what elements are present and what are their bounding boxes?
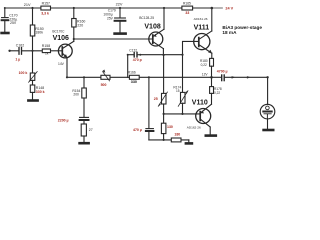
- svg-text:330 k: 330 k: [36, 90, 45, 94]
- svg-text:25: 25: [154, 97, 158, 101]
- svg-text:27: 27: [89, 128, 93, 132]
- resistor R166: [129, 75, 139, 79]
- ground (27 ohm): [80, 142, 89, 145]
- node rail-R160: [73, 7, 75, 9]
- arrowhead V106 emitter: [64, 54, 68, 58]
- svg-text:12V: 12V: [202, 73, 209, 77]
- svg-text:BiA3 power-stage: BiA3 power-stage: [222, 25, 262, 30]
- arrowhead trimmer 25: [158, 103, 161, 106]
- svg-text:2200 µ: 2200 µ: [58, 118, 69, 122]
- node input terminal: [8, 50, 10, 52]
- capacitor 470u: [146, 129, 154, 140]
- node output: [210, 76, 213, 79]
- wire R154 chain: [83, 77, 85, 88]
- wire V111 collector to rail: [211, 8, 213, 31]
- wire V110 collector to chassis: [209, 127, 211, 135]
- node C162-R150: [31, 50, 33, 52]
- wire V111 base: [183, 41, 199, 54]
- svg-text:R158: R158: [42, 44, 50, 48]
- svg-text:3,3 k: 3,3 k: [41, 12, 49, 16]
- svg-text:0,22: 0,22: [214, 91, 220, 95]
- ground (C179): [115, 32, 126, 35]
- svg-text:4700 µ: 4700 µ: [217, 69, 228, 73]
- resistor R180: [210, 58, 214, 66]
- wire V111 emitter: [211, 53, 213, 58]
- resistor R165: [182, 6, 193, 10]
- node C172 left: [127, 54, 129, 56]
- ground (R148): [28, 99, 37, 102]
- trimmer 100k: [29, 51, 38, 85]
- capacitor C179: [115, 8, 126, 32]
- svg-text:25V: 25V: [107, 16, 114, 20]
- node R154 tap: [83, 76, 85, 78]
- svg-text:14V: 14V: [58, 62, 65, 66]
- wire main feedback/output line: [67, 76, 212, 78]
- svg-text:V111: V111: [194, 24, 210, 31]
- node rail-C170 corner: [4, 7, 6, 9]
- resistor 27: [81, 124, 86, 136]
- connector arrow 1: [232, 76, 236, 79]
- arrowhead trimmer 100k: [28, 79, 31, 83]
- wire V106 collector: [73, 27, 75, 41]
- wire bottom bus: [149, 139, 189, 141]
- capacitor C162: [19, 48, 42, 55]
- svg-text:V106: V106: [53, 35, 69, 42]
- svg-text:100 k: 100 k: [19, 71, 28, 75]
- svg-text:500: 500: [101, 83, 107, 87]
- node V111 base drop: [181, 54, 183, 56]
- arrowhead pot 500: [102, 70, 105, 73]
- transistor V110: [196, 104, 212, 127]
- svg-text:22V: 22V: [116, 3, 123, 7]
- node 470u tap: [148, 76, 150, 78]
- svg-text:180k: 180k: [35, 31, 43, 35]
- trimmer 25: [158, 92, 167, 114]
- trimmer R174: [178, 91, 188, 114]
- svg-text:V110: V110: [192, 99, 208, 106]
- svg-text:AD161·26: AD161·26: [194, 17, 208, 21]
- svg-text:470 µ: 470 µ: [133, 128, 142, 132]
- capacitor C170: [2, 8, 9, 32]
- node bottom bus R130: [163, 139, 165, 141]
- svg-text:1 µ: 1 µ: [15, 58, 20, 62]
- wire trimmer B column: [182, 55, 184, 93]
- svg-text:1k: 1k: [45, 51, 49, 55]
- arrowhead V111 emitter (NPN): [208, 50, 212, 54]
- svg-text:AD162·26: AD162·26: [187, 125, 201, 129]
- node rail-V111: [211, 7, 214, 10]
- resistor R154: [82, 88, 87, 98]
- ground (bottom bus): [186, 140, 192, 144]
- arrowhead trimmer R174: [185, 90, 188, 93]
- wire 470u column: [148, 77, 150, 128]
- wire rail stub to 24V label: [212, 7, 223, 9]
- svg-text:BC170C: BC170C: [52, 30, 65, 34]
- ground chassis (V110): [206, 134, 216, 137]
- node V106 collector: [73, 38, 75, 40]
- svg-text:130: 130: [167, 125, 173, 129]
- node rail-V108: [163, 7, 165, 9]
- wire output to speaker: [212, 76, 222, 78]
- resistor 130: [161, 114, 166, 140]
- node rail-C179: [119, 7, 121, 9]
- resistor R150: [30, 25, 35, 36]
- node rail-R150: [31, 7, 33, 9]
- resistor R158: [42, 49, 50, 53]
- svg-text:C172: C172: [129, 49, 137, 53]
- svg-text:0,22: 0,22: [201, 63, 207, 67]
- svg-text:R166: R166: [128, 70, 136, 74]
- svg-text:180: 180: [174, 133, 180, 137]
- wire collector to V108 base: [74, 38, 153, 40]
- svg-text:220: 220: [77, 24, 83, 28]
- svg-text:R165: R165: [183, 1, 191, 5]
- node V106 emitter corner: [66, 76, 68, 78]
- svg-text:330: 330: [131, 80, 137, 84]
- transistor V108: [149, 29, 164, 48]
- node bias bus A: [163, 113, 165, 115]
- wire input line: [10, 50, 19, 52]
- svg-text:BC128-25: BC128-25: [139, 16, 154, 20]
- capacitor 4700u: [222, 75, 225, 81]
- arrowhead V110 emitter (PNP): [201, 111, 205, 114]
- wire bias bus to V110 base: [164, 113, 201, 115]
- svg-text:21V: 21V: [24, 3, 31, 7]
- svg-text:R157: R157: [42, 2, 50, 6]
- wire bias line: [140, 54, 182, 56]
- capacitor C172: [128, 52, 141, 77]
- wire R150 column: [32, 8, 34, 25]
- ground (C170): [2, 32, 9, 35]
- wire V108 collector down: [162, 49, 164, 55]
- svg-text:V108: V108: [144, 23, 160, 30]
- svg-text:C162: C162: [16, 43, 24, 47]
- ground (speaker): [264, 129, 274, 132]
- loudspeaker LS: [260, 104, 275, 129]
- potentiometer 500: [101, 72, 110, 81]
- node V108 collector junction: [163, 54, 165, 56]
- svg-text:24 V: 24 V: [225, 7, 233, 11]
- svg-text:470 p: 470 p: [133, 58, 142, 62]
- wire top supply rail: [5, 7, 212, 9]
- svg-text:33: 33: [185, 11, 189, 15]
- resistor R157: [41, 6, 51, 10]
- node C172 right: [139, 54, 141, 56]
- svg-text:200: 200: [73, 93, 79, 97]
- connector arrow 2: [247, 76, 251, 79]
- svg-text:18 mA: 18 mA: [222, 30, 237, 35]
- svg-text:15: 15: [176, 89, 180, 93]
- node bias bus B: [181, 113, 183, 115]
- transistor V106: [58, 41, 73, 77]
- svg-text:25V: 25V: [10, 21, 17, 25]
- resistor R148: [30, 85, 35, 92]
- transistor V111: [194, 31, 212, 53]
- node speaker corner: [266, 76, 268, 78]
- resistor R160: [72, 19, 76, 28]
- capacitor 2200u: [80, 117, 89, 124]
- resistor R178: [210, 77, 214, 104]
- arrowhead V108 emitter (PNP): [153, 34, 156, 37]
- wire V108 emitter to rail: [163, 8, 165, 29]
- resistor 180: [171, 138, 181, 142]
- wire trimmer A column: [163, 55, 165, 93]
